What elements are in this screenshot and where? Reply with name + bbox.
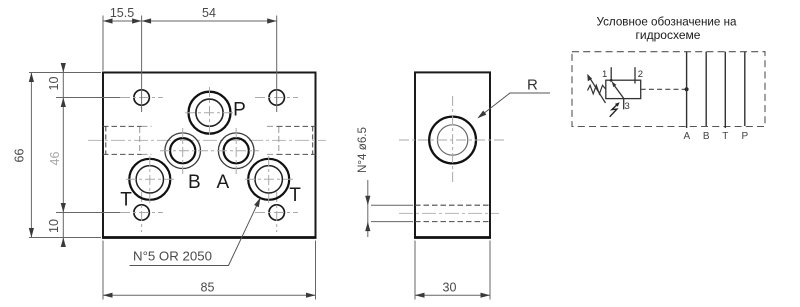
junction dot on line A — [685, 87, 689, 91]
port T left outer circle — [129, 159, 170, 200]
port A outer circle — [218, 133, 254, 169]
dimension 30 line — [415, 294, 490, 296]
hidden mounting holes in side view — [415, 205, 490, 221]
svg-text:N°5 OR 2050: N°5 OR 2050 — [133, 250, 212, 264]
mounting hole top-left — [134, 90, 149, 105]
svg-text:10: 10 — [47, 77, 61, 91]
port P outer circle — [189, 92, 231, 134]
schematic line B — [705, 52, 707, 126]
schematic line A — [686, 52, 688, 128]
hidden side-cavity left: top dash — [103, 125, 142, 127]
svg-text:1: 1 — [602, 69, 607, 80]
svg-text:P: P — [233, 100, 246, 121]
adjustment arrow through spring — [590, 78, 606, 104]
dia 6.5 extension lines — [371, 205, 413, 221]
ports A B centerlines — [160, 128, 259, 174]
port A inner circle — [224, 138, 249, 163]
svg-text:46: 46 — [48, 152, 62, 166]
dimension 54 line — [142, 20, 277, 22]
svg-text:Условное обозначение на: Условное обозначение на — [597, 15, 737, 29]
svg-text:54: 54 — [202, 6, 216, 20]
leader underline and arrow to T port — [130, 199, 261, 266]
svg-text:P: P — [741, 131, 748, 142]
ports T centerlines — [126, 156, 293, 203]
dia 6.5 dimension line with outside arrows — [367, 180, 369, 237]
front view bottom edge (thick) — [102, 236, 317, 239]
schematic line P — [744, 52, 746, 126]
svg-text:T: T — [120, 189, 132, 210]
valve body box — [606, 80, 641, 98]
side view bottom edge thick — [414, 236, 491, 239]
svg-text:30: 30 — [443, 281, 457, 295]
svg-text:A: A — [683, 131, 690, 142]
pilot dashed line to A — [641, 88, 687, 90]
dimension 66 line — [30, 73, 32, 238]
svg-text:T: T — [722, 131, 728, 142]
schematic dashed enclosure — [572, 52, 765, 127]
port R inner circle — [437, 125, 467, 155]
port T left inner circle — [136, 166, 163, 193]
svg-text:10: 10 — [47, 219, 61, 233]
svg-text:N°4 ø6.5: N°4 ø6.5 — [355, 127, 369, 173]
port T right inner circle — [255, 166, 282, 193]
electric lightning symbol — [610, 104, 618, 117]
svg-text:R: R — [527, 77, 538, 94]
dimension 10/46/10 line — [62, 64, 64, 246]
flow path diagonal with arrowhead toward pin 1 — [613, 84, 624, 99]
hidden side-cavity left: bottom dash — [103, 153, 142, 155]
leader R arrow — [479, 93, 551, 118]
bottom dimension 30 extension lines — [415, 241, 490, 300]
bottom dimension 85 extension lines — [103, 241, 316, 300]
port P inner circle — [196, 99, 223, 126]
svg-text:85: 85 — [201, 281, 215, 295]
pin 2 — [634, 67, 636, 83]
port P centerlines — [185, 87, 234, 138]
svg-text:B: B — [703, 131, 710, 142]
hidden side-cavity right: inner vertical dash — [312, 126, 314, 154]
dimension 15.5 line — [103, 20, 142, 22]
hidden side-cavity right: bottom dash — [277, 153, 316, 155]
svg-text:3: 3 — [625, 101, 630, 112]
port R centerlines — [399, 96, 506, 185]
svg-text:2: 2 — [638, 69, 643, 80]
side view hole centerline — [399, 212, 499, 214]
svg-text:A: A — [216, 172, 229, 193]
hidden side-cavity right: top dash — [277, 125, 316, 127]
mounting hole bottom-left — [134, 205, 149, 220]
port B outer circle — [165, 133, 201, 169]
dimension 85 line — [103, 294, 316, 296]
svg-text:T: T — [289, 185, 301, 206]
mounting hole centerlines — [120, 98, 298, 233]
main horizontal centerline of front view — [88, 139, 326, 141]
port B inner circle — [170, 138, 195, 163]
svg-text:B: B — [188, 172, 201, 193]
spring zigzag — [588, 85, 606, 94]
port R outer circle — [429, 117, 476, 164]
port T right outer circle — [248, 159, 289, 200]
pin 3 — [623, 99, 625, 110]
mounting hole top-right — [269, 90, 284, 105]
pin 1 — [610, 67, 612, 81]
svg-text:66: 66 — [13, 149, 27, 163]
side view outline 30x66 — [415, 72, 490, 237]
svg-text:15.5: 15.5 — [110, 6, 134, 20]
hidden side-cavity left: light extension — [140, 126, 152, 154]
front view: manifold block outline 85x66 — [103, 73, 316, 238]
top dimension extension lines — [103, 16, 277, 113]
left dimension extension lines — [29, 73, 120, 238]
hidden side-cavity left: inner vertical dash — [105, 126, 107, 154]
hidden side-cavity right: light extension — [267, 126, 279, 154]
mounting hole bottom-right — [269, 205, 284, 220]
schematic line T — [724, 52, 726, 128]
svg-text:гидросхеме: гидросхеме — [636, 28, 701, 42]
